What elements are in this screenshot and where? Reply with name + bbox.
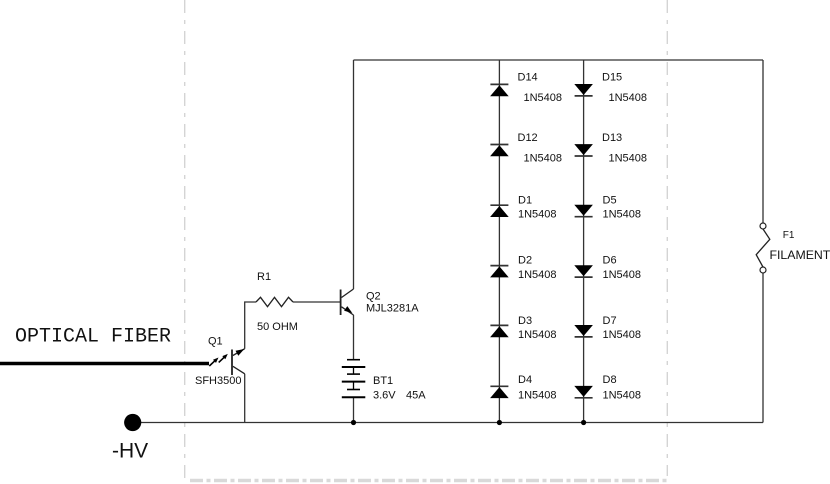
diode D4	[490, 386, 509, 398]
svg-text:D2: D2	[518, 254, 532, 266]
resistor R1	[256, 297, 293, 306]
svg-text:1N5408: 1N5408	[609, 153, 648, 165]
diode D14	[490, 84, 509, 96]
wire R1 left vertical	[245, 302, 256, 349]
svg-text:1N5408: 1N5408	[603, 390, 642, 402]
wire top rail	[354, 59, 764, 61]
svg-text:D3: D3	[518, 315, 532, 327]
svg-text:45A: 45A	[406, 390, 426, 402]
svg-text:-HV: -HV	[112, 440, 148, 463]
wire Q2 collector	[353, 60, 355, 289]
svg-text:1N5408: 1N5408	[524, 153, 563, 165]
svg-text:D7: D7	[603, 315, 617, 327]
svg-text:D5: D5	[603, 194, 617, 206]
fuse F1 filament	[756, 223, 770, 273]
transistor Q2	[341, 289, 354, 315]
wire BT1 to bottom rail	[353, 397, 355, 422]
svg-text:FILAMENT: FILAMENT	[770, 248, 830, 262]
svg-text:Q1: Q1	[208, 336, 223, 348]
diode D6	[574, 265, 593, 277]
svg-text:SFH3500: SFH3500	[195, 375, 241, 387]
svg-text:1N5408: 1N5408	[518, 269, 557, 281]
svg-text:D1: D1	[518, 194, 532, 206]
node -HV terminal	[124, 414, 141, 431]
svg-text:50 OHM: 50 OHM	[257, 321, 298, 333]
diode D12	[490, 145, 509, 157]
svg-text:D12: D12	[518, 132, 538, 144]
diode D2	[490, 266, 509, 278]
diode D1	[490, 205, 509, 217]
wire right side lower	[762, 273, 764, 423]
wire bottom rail	[133, 422, 763, 424]
wire right side upper	[762, 60, 764, 223]
svg-text:F1: F1	[783, 230, 795, 241]
svg-text:1N5408: 1N5408	[603, 208, 642, 220]
junction at right diode column and bottom rail	[581, 420, 586, 425]
svg-text:1N5408: 1N5408	[603, 269, 642, 281]
battery BT1	[342, 360, 366, 398]
svg-text:1N5408: 1N5408	[518, 329, 557, 341]
phototransistor Q1	[209, 349, 244, 375]
wire R1 to Q2 base	[293, 301, 341, 303]
svg-text:R1: R1	[257, 271, 271, 283]
svg-text:OPTICAL FIBER: OPTICAL FIBER	[15, 326, 171, 349]
wire Q1 emitter to bottom rail	[244, 374, 246, 423]
svg-text:3.6V: 3.6V	[373, 390, 396, 402]
svg-text:1N5408: 1N5408	[524, 92, 563, 104]
junction at Q2/BT1 branch and bottom rail	[351, 420, 356, 425]
wire Q2 emitter to BT1	[353, 315, 355, 360]
diode D15	[574, 84, 593, 96]
svg-text:D4: D4	[518, 374, 532, 386]
optical fiber input line	[0, 326, 209, 364]
junction at left diode column and bottom rail	[497, 420, 502, 425]
svg-text:Q2: Q2	[366, 291, 381, 303]
svg-text:D14: D14	[518, 72, 538, 84]
diode D8	[574, 386, 593, 398]
svg-text:1N5408: 1N5408	[609, 92, 648, 104]
svg-text:1N5408: 1N5408	[518, 390, 557, 402]
diode D7	[574, 325, 593, 337]
svg-text:D6: D6	[603, 254, 617, 266]
svg-text:D8: D8	[603, 374, 617, 386]
svg-text:MJL3281A: MJL3281A	[366, 303, 419, 315]
sheet border dashed lines (decorative)	[185, 0, 668, 478]
diode D5	[574, 205, 593, 217]
diode D3	[490, 325, 509, 337]
svg-text:BT1: BT1	[373, 375, 393, 387]
svg-text:D15: D15	[602, 72, 622, 84]
wire left diode column	[498, 60, 500, 423]
wire right diode column	[583, 60, 585, 423]
svg-text:D13: D13	[602, 132, 622, 144]
diode D13	[574, 144, 593, 156]
svg-text:1N5408: 1N5408	[518, 208, 557, 220]
svg-text:1N5408: 1N5408	[603, 329, 642, 341]
